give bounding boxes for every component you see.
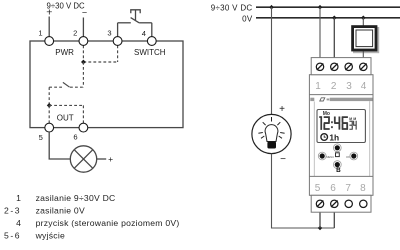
- digit 4: [334, 117, 340, 130]
- dashed wire node to terminal3 branch: [83, 61, 117, 63]
- wire wall switch to terminal 4: [362, 52, 364, 63]
- LCD time digits 12:46: [319, 116, 348, 130]
- dashed wire node B to terminal 6 branch: [49, 104, 83, 106]
- wire terminal 4 lead: [151, 23, 153, 37]
- wire terminal 3 lead: [117, 23, 119, 37]
- terminal 3: [113, 37, 122, 46]
- svg-text:OUT: OUT: [57, 113, 74, 122]
- svg-text:6: 6: [330, 183, 336, 194]
- svg-text:3: 3: [107, 29, 111, 38]
- bus 9÷30V: [256, 6, 400, 8]
- svg-text:MENU: MENU: [326, 155, 334, 159]
- node bus1-terminal1: [318, 5, 323, 10]
- terminal 1: [45, 37, 54, 46]
- terminal 5: [45, 123, 54, 132]
- LCD clock icon: [321, 134, 328, 141]
- node junction B: [47, 103, 52, 108]
- svg-text:zasilanie 9÷30V DC: zasilanie 9÷30V DC: [36, 193, 116, 203]
- colon: [331, 121, 333, 123]
- terminal screw 4: [360, 63, 367, 70]
- wire lamp to +: [97, 158, 107, 160]
- module bottom terminal block: [311, 195, 371, 212]
- svg-text:8: 8: [360, 183, 366, 194]
- svg-text:4: 4: [361, 81, 367, 92]
- wire module terminal 5 down: [319, 208, 321, 228]
- digit 2: [323, 116, 330, 130]
- terminal 4: [147, 37, 156, 46]
- internal contact (open switch): [49, 82, 83, 87]
- wire bus2 to wall switch: [362, 18, 364, 26]
- terminal 6: [79, 123, 88, 132]
- button down: [333, 161, 341, 169]
- wall switch: [351, 25, 379, 53]
- terminal screw 8: [360, 200, 367, 207]
- svg-text:PWR: PWR: [55, 48, 74, 57]
- bulb rays: [258, 117, 284, 138]
- svg-text:5-6: 5-6: [4, 231, 21, 241]
- node junction A: [81, 60, 86, 65]
- push button S1: [118, 10, 152, 23]
- face inner panel lines: [314, 101, 369, 176]
- svg-text:4: 4: [16, 218, 21, 228]
- bus 0V: [256, 17, 400, 19]
- lamp (indicator): [70, 146, 96, 172]
- button right: [350, 152, 358, 160]
- wire terminal 5 to lamp: [49, 132, 70, 159]
- svg-text:3: 3: [346, 81, 352, 92]
- svg-text:2: 2: [73, 29, 77, 38]
- svg-text:5: 5: [315, 183, 321, 194]
- dashed wire contact down to node B: [48, 87, 50, 105]
- pin row line above numbers 5-8: [309, 175, 373, 177]
- svg-text:2-3: 2-3: [4, 205, 21, 215]
- terminal screw 5: [316, 200, 323, 207]
- button left: [318, 152, 326, 160]
- module face: [309, 75, 373, 196]
- svg-text:5: 5: [39, 133, 43, 142]
- svg-text:0V: 0V: [242, 14, 253, 23]
- svg-text:1: 1: [38, 28, 42, 37]
- bulb E1: [252, 114, 291, 153]
- svg-text:przycisk (sterowanie poziomem: przycisk (sterowanie poziomem 0V): [36, 218, 180, 228]
- terminal screw 1: [316, 63, 323, 70]
- svg-text:9÷30 V DC: 9÷30 V DC: [211, 4, 253, 13]
- svg-text:7: 7: [345, 183, 351, 194]
- svg-text:4: 4: [142, 29, 146, 38]
- wire bus2 to module terminal 2: [333, 18, 335, 63]
- wire bulb to bottom junction: [272, 154, 335, 228]
- svg-text:1: 1: [315, 81, 321, 92]
- svg-text:MM: MM: [349, 117, 356, 121]
- svg-text:+: +: [108, 154, 113, 164]
- svg-text:wyjście: wyjście: [35, 231, 65, 241]
- pin row line under numbers 1-4: [309, 94, 373, 96]
- bulb glass: [265, 125, 278, 142]
- svg-text:SWITCH: SWITCH: [134, 48, 166, 57]
- dashed wire node down to contact: [82, 62, 84, 87]
- node bus2-terminal2: [332, 16, 337, 21]
- svg-text:B: B: [336, 167, 341, 174]
- sec digit 4: [353, 121, 357, 130]
- svg-text:+: +: [279, 104, 285, 115]
- terminal screw 2: [331, 63, 338, 70]
- wire bus1 to bulb: [271, 7, 273, 114]
- center indicator: [336, 153, 340, 157]
- wire - to terminal 2: [82, 18, 84, 37]
- wire module terminal 6 down: [333, 208, 335, 228]
- terminal screw 7: [345, 200, 352, 207]
- digit 1: [319, 116, 321, 118]
- terminal screw 6: [331, 200, 338, 207]
- button up: [333, 144, 341, 152]
- sec digit 3: [349, 121, 352, 130]
- digit 6: [342, 116, 348, 130]
- dashed wire down to terminal 5: [48, 105, 50, 123]
- wire + to terminal 1: [48, 17, 50, 37]
- LCD display: [317, 110, 365, 143]
- dashed wire down to terminal 6: [82, 105, 84, 123]
- module top terminal block: [311, 58, 371, 75]
- svg-text:1h: 1h: [329, 132, 339, 142]
- terminal 2: [79, 37, 88, 46]
- dashed wire terminal 3 down: [117, 45, 119, 62]
- bulb base: [267, 142, 276, 149]
- device body box: [30, 41, 183, 128]
- node bus1-bulb: [269, 5, 274, 10]
- svg-text:zasilanie 0V: zasilanie 0V: [36, 205, 85, 215]
- svg-text:6: 6: [73, 132, 77, 141]
- node bottom junction: [318, 226, 323, 231]
- svg-text:−: −: [280, 154, 286, 165]
- svg-text:1: 1: [16, 193, 21, 203]
- LCD seconds 34: [349, 121, 356, 130]
- svg-text:2: 2: [331, 81, 337, 92]
- svg-text:OK: OK: [346, 155, 350, 159]
- svg-text:−: −: [82, 7, 87, 17]
- node bus2-switch: [361, 16, 366, 21]
- wire bus1 to module terminal 1: [319, 7, 321, 62]
- svg-text:Mo: Mo: [323, 111, 330, 117]
- brand bar: [310, 97, 372, 101]
- terminal screw 3: [345, 63, 352, 70]
- dashed wire terminal 2 down: [82, 45, 84, 62]
